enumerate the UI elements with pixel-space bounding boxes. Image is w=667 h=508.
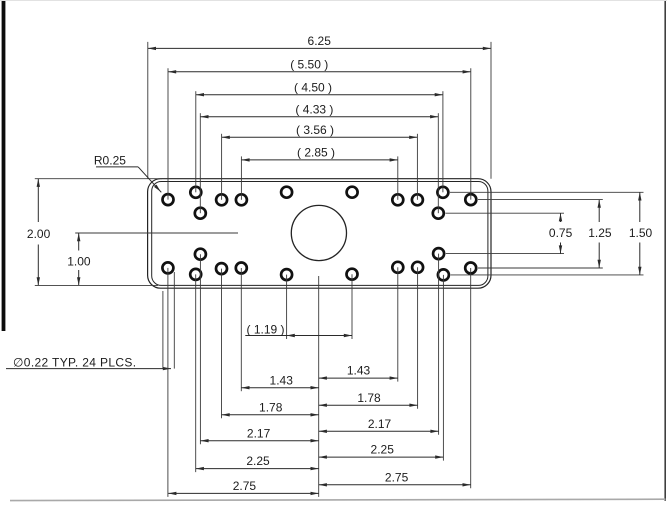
svg-text:( 3.56 ): ( 3.56 ) [296, 123, 334, 137]
hole H8 [392, 194, 403, 205]
extension line from hole H12 [478, 199, 603, 201]
hole H21 [412, 262, 423, 273]
dim 6.25 extension lines [147, 42, 149, 179]
extension line from hole H23 [442, 275, 444, 461]
extension line from hole H10 [450, 191, 644, 193]
svg-text:2.00: 2.00 [27, 227, 51, 241]
hole H6 [281, 187, 292, 198]
dim 1.78 left line [222, 414, 319, 416]
center extension line [318, 276, 320, 497]
hole H4 [216, 194, 227, 205]
dim 2.00 extension line top [35, 178, 162, 180]
dim 1.43 left line [241, 387, 318, 389]
dim 1.19 line [245, 335, 352, 337]
svg-text:( 1.19 ): ( 1.19 ) [246, 323, 284, 337]
dim 3.56 line [222, 136, 418, 138]
hole H1 [163, 194, 174, 205]
svg-text:1.43: 1.43 [270, 373, 294, 387]
plate outer outline [148, 179, 491, 289]
hole H13 [162, 262, 173, 273]
svg-text:6.25: 6.25 [308, 34, 332, 48]
hole H3 [195, 208, 206, 219]
svg-text:( 4.33 ): ( 4.33 ) [295, 103, 333, 117]
svg-text:1.43: 1.43 [347, 364, 371, 378]
plate inner edge outline [152, 182, 488, 286]
svg-text:∅0.22 TYP. 24 PLCS.: ∅0.22 TYP. 24 PLCS. [13, 355, 136, 369]
dim 2.17 left line [200, 440, 318, 442]
extension line from hole H21 [417, 267, 419, 408]
hole H20 [392, 262, 403, 273]
dim 1.78 right line [319, 404, 418, 406]
hole H16 [216, 263, 227, 274]
sheet top faint edge [0, 0, 667, 2]
extension line from hole H20 [397, 267, 399, 381]
svg-text:2.75: 2.75 [385, 470, 409, 484]
dim 1.19 extension lines [286, 275, 288, 339]
sheet bottom border [10, 499, 666, 500]
dim 4.33 extension lines [199, 113, 201, 213]
hole H24 [465, 263, 476, 274]
dim 6.25 line [148, 47, 491, 49]
dim 2.00 extension line bottom [35, 284, 158, 286]
dim 2.00 line [37, 179, 39, 222]
svg-text:2.75: 2.75 [233, 479, 257, 493]
dim 1.43 right line [319, 377, 398, 379]
hole H19 [347, 269, 358, 280]
sheet right border [664, 0, 666, 501]
svg-text:1.78: 1.78 [259, 400, 283, 414]
dim 2.25 left line [196, 468, 319, 470]
sheet left black bar [2, 0, 6, 331]
dim 1.00 line [78, 233, 80, 251]
dim 2.17 right line [319, 430, 439, 432]
svg-text:2.25: 2.25 [371, 443, 395, 457]
extension line from hole H23 [451, 274, 644, 276]
svg-text:( 2.85 ): ( 2.85 ) [297, 146, 335, 160]
hole witness line right [173, 272, 175, 369]
svg-text:2.25: 2.25 [246, 454, 270, 468]
dim 5.50 line [168, 71, 471, 73]
extension line from hole H24 [478, 267, 603, 269]
dim 1.00 extension line [75, 232, 238, 234]
dim 2.85 extension lines [240, 156, 242, 199]
extension line from hole H11 [446, 212, 565, 214]
dim 2.75 left line [168, 492, 319, 494]
svg-text:( 4.50 ): ( 4.50 ) [294, 81, 332, 95]
extension line from hole H16 [221, 269, 223, 419]
dim 5.50 extension lines [167, 68, 169, 199]
extension line from hole H22 [446, 253, 564, 255]
dim 2.75 right line [319, 484, 471, 486]
svg-text:0.75: 0.75 [549, 226, 573, 240]
hole H5 [236, 194, 247, 205]
hole witness line left [162, 291, 164, 369]
dim 1.50 line [639, 192, 641, 222]
hole H17 [236, 263, 247, 274]
hole H18 [281, 269, 292, 280]
R0.25 leader [96, 166, 138, 168]
hole H10 [437, 187, 448, 198]
hole H12 [465, 194, 476, 205]
extension line from hole H15 [199, 254, 201, 444]
extension line from hole H22 [438, 254, 440, 435]
svg-text:1.25: 1.25 [588, 226, 612, 240]
extension line from hole H14 [195, 274, 197, 472]
svg-text:1.50: 1.50 [629, 226, 653, 240]
hole H14 [190, 269, 201, 280]
dim 2.85 line [241, 159, 397, 161]
svg-text:2.17: 2.17 [368, 417, 392, 431]
hole H22 [433, 248, 444, 259]
svg-text:( 5.50 ): ( 5.50 ) [290, 58, 328, 72]
hole note leader [6, 368, 171, 370]
dim 0.75 line [560, 213, 562, 222]
svg-text:2.17: 2.17 [247, 426, 271, 440]
hole H11 [433, 208, 444, 219]
svg-text:1.78: 1.78 [357, 391, 381, 405]
svg-text:R0.25: R0.25 [94, 154, 126, 168]
dim 4.50 line [196, 94, 443, 96]
hole H23 [438, 269, 449, 280]
dim 3.56 extension lines [221, 134, 223, 200]
hole H15 [195, 249, 206, 260]
center hole circle [291, 205, 346, 260]
dim 2.25 right line [319, 456, 444, 458]
hole H7 [347, 187, 358, 198]
hole H2 [190, 187, 201, 198]
extension line from hole H24 [470, 268, 472, 488]
hole H9 [412, 194, 423, 205]
extension line from hole H13 [167, 268, 169, 497]
dim 1.25 line [598, 200, 600, 222]
svg-text:1.00: 1.00 [67, 255, 91, 269]
dim 4.33 line [200, 116, 438, 118]
dim 4.50 extension lines [195, 91, 197, 192]
extension line from hole H17 [240, 268, 242, 391]
